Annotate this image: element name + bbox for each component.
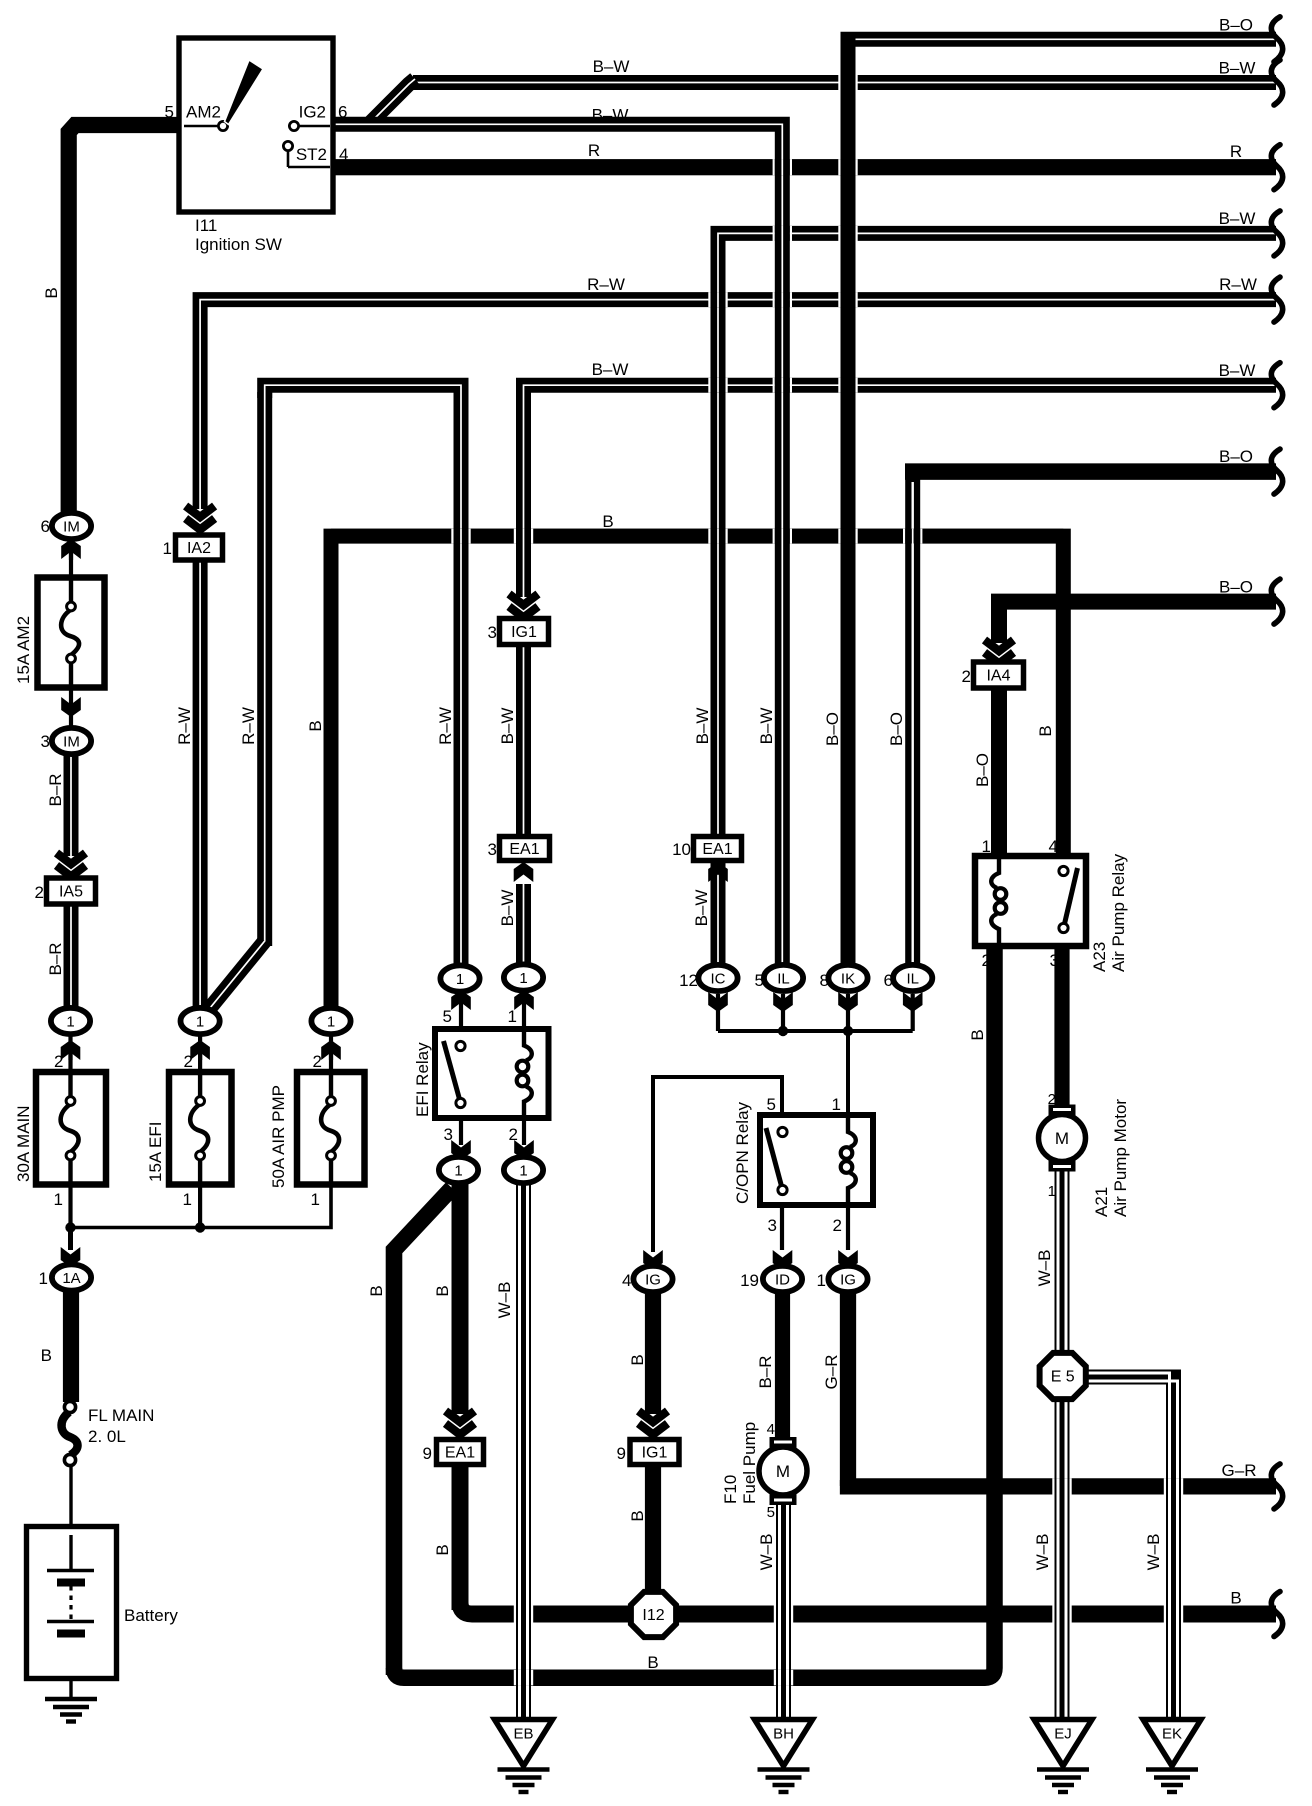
wire R-W diagonal into 15A EFI oval [210,941,265,1008]
wire W-B E5 down to EJ ground [1055,1398,1070,1722]
svg-text:1A: 1A [62,1270,80,1287]
svg-text:4: 4 [1049,837,1058,856]
thin stems EFI relay pins 3 and 2 to ovals [459,1103,463,1145]
svg-text:B–O: B–O [887,712,906,746]
connector 3 EA1 [500,837,550,861]
wire R-W column x200 from IA2 to fuse oval [193,557,208,1010]
svg-text:W–B: W–B [1033,1534,1052,1571]
svg-text:R: R [1230,142,1242,161]
EFI relay switch [444,1041,461,1101]
C/OPN relay switch [766,1128,782,1188]
svg-text:I11: I11 [195,216,217,235]
arrow into IG1 [508,598,540,623]
thin wire C/OPN relay pin5 up over to 4IG oval [653,1077,782,1252]
svg-text:G–R: G–R [822,1355,841,1390]
svg-text:15A EFI: 15A EFI [146,1122,165,1182]
continuation squiggle row 2 [1271,60,1282,105]
wire B-O row from IA4 column corner to right edge [999,602,1276,643]
svg-text:EK: EK [1162,1726,1182,1743]
junction dot bus x848 [843,1026,853,1036]
svg-text:W–B: W–B [1144,1534,1163,1571]
wire crossing patches [451,529,453,544]
arrow into IA4 [983,644,1015,669]
svg-text:IG1: IG1 [642,1445,668,1462]
svg-text:B–O: B–O [1219,16,1253,35]
ground below battery [45,1697,97,1701]
connector 5 IL oval [773,992,793,1012]
svg-text:R–W: R–W [587,275,625,294]
ground EK [1143,1720,1201,1767]
continuation squiggle row 9 [1271,1464,1282,1509]
wire B-O row from column x912 corner to right edge [905,463,1276,480]
thin stem fuse bottom to 3IM oval [69,687,73,730]
svg-text:A23: A23 [1090,942,1109,972]
svg-text:1: 1 [163,539,172,558]
svg-text:B–R: B–R [46,942,65,975]
svg-text:50A AIR PMP: 50A AIR PMP [269,1085,288,1188]
thin wire FL MAIN to battery [69,1463,72,1570]
svg-text:1: 1 [454,1162,462,1179]
connector 3 IG1 [500,619,549,645]
svg-text:B–W: B–W [757,708,776,745]
wire B-W diagonal branch from IG2 wire [371,79,415,122]
continuation squiggle row 1 [1271,17,1282,62]
svg-text:1: 1 [519,1162,527,1179]
svg-text:15A AM2: 15A AM2 [14,616,33,684]
svg-text:EJ: EJ [1054,1726,1072,1743]
svg-text:R: R [588,141,600,160]
thin wire bus to C/OPN relay coil pin1 [846,1031,850,1117]
wire B-O column x848 from top corner down to IK oval [841,32,856,968]
continuation squiggle row 3 [1271,145,1282,190]
svg-text:30A MAIN: 30A MAIN [14,1105,33,1182]
fuse 50A AIR PMP [297,1072,365,1185]
svg-text:B–W: B–W [1219,59,1256,78]
svg-text:B–W: B–W [692,890,711,927]
svg-text:1: 1 [311,1190,320,1209]
ground EB [495,1720,553,1767]
svg-text:W–B: W–B [1035,1250,1054,1287]
svg-text:R–W: R–W [175,707,194,745]
svg-text:B: B [433,1544,452,1555]
svg-text:IL: IL [906,970,919,987]
oval 1 col1 [61,1040,81,1060]
connector 6 IM oval [61,539,81,559]
wire B-O top row from column x848 corner to right edge [848,39,1276,46]
wire B-W column x523 from oval up-arrow to EA1 [516,884,531,968]
svg-text:3: 3 [1050,951,1059,970]
svg-text:B–W: B–W [593,57,630,76]
svg-text:R–W: R–W [239,707,258,745]
connector 2 IA4 [974,662,1024,688]
svg-text:IG: IG [645,1271,661,1288]
wire B bottom row from column x394 to column x994 up to air pump relay pin2 [394,948,995,1678]
svg-text:1: 1 [1048,1183,1056,1200]
air pump motor A21 [1049,1105,1076,1117]
wire W-B air pump motor to E5 [1055,1170,1070,1354]
svg-text:B–R: B–R [46,773,65,806]
svg-text:EA1: EA1 [702,841,732,858]
svg-text:IA2: IA2 [187,540,211,557]
connector 19 ID oval [773,1250,793,1270]
continuation squiggle row 7 [1271,449,1282,494]
wire R-W row from IA2 column corner to right edge [200,300,1276,509]
svg-text:5: 5 [165,103,174,122]
svg-text:B: B [628,1354,647,1365]
svg-text:B: B [42,287,61,298]
svg-text:B: B [41,1346,52,1365]
svg-text:1: 1 [39,1269,48,1288]
svg-text:2: 2 [1048,1091,1056,1108]
wire B col1 bus to 1A oval [68,1227,73,1250]
thin bus under IC IL IK IL ovals [718,1029,913,1033]
svg-text:5: 5 [767,1504,775,1521]
svg-text:1: 1 [327,1013,335,1030]
svg-text:G–R: G–R [1222,1461,1257,1480]
svg-text:B–W: B–W [1219,209,1256,228]
wire B-W row to EA1 pin 10: corner at x718 then down [718,233,1276,837]
svg-text:B–W: B–W [498,708,517,745]
continuation squiggle row 5 [1271,277,1282,322]
svg-text:1: 1 [183,1190,192,1209]
svg-text:6: 6 [41,517,50,536]
svg-text:2: 2 [54,1052,63,1071]
svg-text:2: 2 [509,1125,518,1144]
connector 3 IM oval [61,697,81,717]
svg-text:5: 5 [755,971,764,990]
svg-text:1: 1 [982,837,991,856]
fuse 15A AM2 [38,578,105,688]
svg-text:1: 1 [519,970,527,987]
continuation squiggle row 4 [1271,211,1282,256]
oval 1 col3 50A AIR PMP [321,1040,341,1060]
svg-text:B: B [647,1653,658,1672]
oval 1 col2 15A EFI [190,1040,210,1060]
svg-text:Air Pump Motor: Air Pump Motor [1111,1099,1130,1217]
svg-text:B–W: B–W [693,708,712,745]
svg-text:W–B: W–B [495,1282,514,1319]
C/OPN relay box [760,1115,873,1205]
svg-text:EA1: EA1 [509,841,539,858]
thin stems EFI relay pins 5 and 1 [459,992,463,1046]
svg-text:E 5: E 5 [1051,1369,1075,1386]
svg-text:B–O: B–O [1219,447,1253,466]
svg-text:B: B [1230,1589,1241,1608]
wire B-O column x912 down to IL oval [905,464,920,969]
arrow into 9 IG1 [637,1415,669,1440]
thin stem 6IM oval to 15A AM2 fuse [69,540,73,578]
connector 1 IG oval [838,1250,858,1270]
wire B column x460 from 9 EA1 down to B row corner [452,1464,469,1610]
C/OPN relay coil [848,1115,856,1205]
air pump relay coil [991,856,999,946]
arrow into 1A oval [61,1247,81,1267]
svg-text:2: 2 [184,1052,193,1071]
wire W-B fuel pump to BH ground [776,1504,791,1722]
svg-text:B–W: B–W [592,360,629,379]
svg-text:4: 4 [339,145,348,164]
svg-text:IG1: IG1 [511,624,537,641]
svg-text:IM: IM [63,733,80,750]
svg-text:2: 2 [962,667,971,686]
wire B from 4IG oval down to 9 IG1 [645,1290,661,1414]
svg-text:R–W: R–W [1219,275,1257,294]
svg-text:M: M [776,1462,790,1481]
svg-text:B–W: B–W [498,890,517,927]
wire B-W from ignition IG2 with corner down to IL oval [333,124,782,968]
wire W-B from E5 right over and down to EK ground [1085,1377,1174,1722]
svg-text:IA5: IA5 [59,884,83,901]
svg-text:B: B [602,512,613,531]
thin stems fuse pins col1 col2 col3 with junction bus [68,1034,72,1073]
svg-text:6: 6 [884,971,893,990]
ignition switch AM2 terminal [184,125,219,128]
air pump relay A23 box [975,856,1086,946]
wire G-R from IG oval column x848 corner to right edge [848,1480,1276,1486]
svg-text:2. 0L: 2. 0L [88,1427,126,1446]
svg-text:A21: A21 [1092,1187,1111,1217]
EFI relay box [435,1029,549,1118]
svg-text:ID: ID [775,1271,790,1288]
svg-text:ST2: ST2 [296,145,327,164]
arrow into IA2 [184,510,216,535]
svg-text:19: 19 [740,1271,759,1290]
svg-text:FL MAIN: FL MAIN [88,1406,154,1425]
wire G-R from 1 IG oval down to corner [840,1290,856,1486]
svg-text:R–W: R–W [436,707,455,745]
connector 10 EA1 [694,837,742,861]
svg-text:IC: IC [711,970,726,987]
svg-text:B: B [1036,725,1055,736]
svg-text:12: 12 [679,971,698,990]
svg-text:B: B [367,1285,386,1296]
wire B column x460 from EFI relay pin3 oval to 9 EA1 [452,1182,469,1414]
wire B-R column x68 IM to IA5 [64,754,79,856]
fuse 15A EFI [169,1072,232,1185]
svg-text:I12: I12 [642,1607,664,1624]
svg-text:1: 1 [66,1013,74,1030]
svg-text:2: 2 [35,883,44,902]
svg-text:B–W: B–W [1219,361,1256,380]
svg-text:IL: IL [777,970,790,987]
svg-text:EFI Relay: EFI Relay [413,1042,432,1117]
arrow into IA5 [55,857,87,882]
wire B-W column x718 lower segment to IC oval [711,860,726,968]
connector 2 IA5 [47,878,96,904]
arrow into 9 EA1 [444,1415,476,1440]
svg-text:B–R: B–R [756,1355,775,1388]
svg-text:2: 2 [982,951,991,970]
ignition switch I11 box [179,38,333,212]
wire R-W bridge from column x263 over to EFI relay column x461 [265,385,461,398]
connector 1 1A oval [52,1264,91,1290]
svg-text:IK: IK [841,970,855,987]
wire B-W row from IG1 column corner to right edge [524,385,1277,397]
svg-text:AM2: AM2 [186,103,221,122]
svg-text:5: 5 [767,1095,776,1114]
fuel pump F10 motor [770,1437,797,1449]
svg-text:IM: IM [63,518,80,535]
connector 6 IL oval [903,992,923,1012]
svg-text:9: 9 [423,1444,432,1463]
thin wire battery to ground [69,1640,72,1700]
svg-text:6: 6 [338,103,347,122]
svg-text:B: B [306,720,325,731]
junction dot bus x783 [778,1026,788,1036]
svg-text:BH: BH [773,1726,794,1743]
EFI relay coil [524,1029,532,1118]
svg-text:B: B [968,1029,987,1040]
ground BH [755,1720,813,1767]
continuation squiggle row 6 [1271,363,1282,408]
wire B-W horizontal from ignition switch IG2 branch to right edge [413,75,1276,90]
ground EJ [1034,1720,1092,1767]
svg-text:IA4: IA4 [986,668,1010,685]
svg-text:1: 1 [832,1095,841,1114]
ovals above EFI relay [451,990,471,1010]
ignition switch IG2 terminal [289,121,298,130]
svg-text:10: 10 [672,840,691,859]
svg-text:3: 3 [768,1216,777,1235]
wire B 1A oval down to FL MAIN [63,1290,79,1402]
svg-text:5: 5 [443,1007,452,1026]
svg-text:2: 2 [313,1052,322,1071]
connector 9 EA1 [437,1440,484,1465]
svg-text:1: 1 [456,971,464,988]
ignition switch ST2 terminal [283,141,292,150]
wire B from 9 IG1 down to I12 [645,1464,661,1600]
svg-text:3: 3 [488,623,497,642]
svg-text:M: M [1055,1129,1069,1148]
svg-text:1: 1 [508,1007,517,1026]
svg-text:IG: IG [840,1271,856,1288]
svg-text:Air Pump Relay: Air Pump Relay [1109,853,1128,972]
svg-text:C/OPN Relay: C/OPN Relay [733,1101,752,1204]
wire B-O column x999 from IA4 down to air pump relay pin1 [991,688,1007,858]
svg-text:EB: EB [513,1726,533,1743]
svg-text:1: 1 [54,1190,63,1209]
connector 8 IK oval [838,992,858,1012]
wire B-R column x68 IA5 to oval [64,903,79,1010]
svg-text:EA1: EA1 [445,1445,475,1462]
svg-text:3: 3 [488,840,497,859]
connector 4 IG oval [643,1250,663,1270]
wire R-W column x263 down to diagonal [257,392,272,946]
svg-text:B–O: B–O [1219,578,1253,597]
wire B-R air pump relay pin3 down to motor [1054,948,1069,1112]
svg-text:B–O: B–O [823,712,842,746]
junction dot col2 bus [195,1222,205,1232]
svg-text:1: 1 [196,1013,204,1030]
svg-text:9: 9 [617,1444,626,1463]
wire W-B column x523 from EFI relay pin2 oval down to EB ground [516,1183,531,1722]
connector E5 octagon [1040,1353,1086,1399]
air pump relay switch [1064,868,1078,926]
continuation squiggle row 10 [1271,1592,1282,1637]
wire B row from EA1 column corner through I12 to right edge [460,1600,1276,1614]
thin stems C/OPN relay pins 3 and 2 [780,1205,784,1250]
svg-text:Ignition SW: Ignition SW [195,235,282,254]
svg-text:F10: F10 [721,1475,740,1504]
ignition switch lever [225,60,264,125]
svg-text:B: B [628,1510,647,1521]
wire B trunk: corner x331 down, horizontal y536, corner x1063 down to air pump relay pin4 [331,536,1063,1010]
junction dot col1 bus [65,1222,75,1232]
wire R-W column x461 down to EFI relay pin5 oval [454,392,469,968]
svg-text:2: 2 [833,1216,842,1235]
svg-text:3: 3 [41,732,50,751]
svg-text:Battery: Battery [124,1606,178,1625]
connector 1 IA2 [176,535,223,560]
svg-text:W–B: W–B [757,1534,776,1571]
wire B-W column x523: corner row to IG1 connector [516,392,531,597]
svg-text:1: 1 [817,1271,826,1290]
ovals below EFI relay [451,1140,471,1160]
svg-text:B–W: B–W [592,106,629,125]
wire B-R from 19 ID oval down to fuel pump [775,1290,790,1440]
wire B-W column x523 between IG1 and EA1 [516,644,531,838]
svg-text:4: 4 [622,1271,631,1290]
fusible link FL MAIN 2.0L [64,1401,75,1412]
svg-text:4: 4 [767,1421,775,1438]
wire B column x394 with diagonal up to EFI relay pin3 oval [394,1188,452,1675]
svg-text:Fuel Pump: Fuel Pump [740,1422,759,1504]
connector I12 octagon [631,1592,676,1637]
connector 9 IG1 [630,1440,679,1465]
wire B from AM2 terminal: corner down left column x68 [69,125,184,514]
battery [27,1527,117,1679]
thin stems IC IL IK IL ovals down to bus [716,994,720,1031]
continuation squiggle row 8 [1271,579,1282,624]
connector 12 IC oval [708,992,728,1012]
svg-text:8: 8 [820,971,829,990]
svg-text:IG2: IG2 [299,103,326,122]
svg-text:B: B [433,1285,452,1296]
svg-text:B–O: B–O [973,753,992,787]
wire R from ignition switch ST2 to right edge [333,159,1276,175]
